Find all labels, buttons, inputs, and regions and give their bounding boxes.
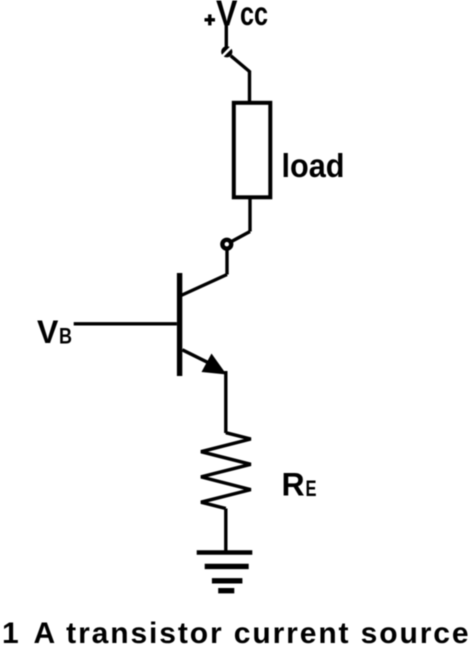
svg-text:load: load: [282, 147, 345, 184]
svg-text:1A transistor current source: 1A transistor current source: [2, 617, 470, 646]
svg-text:E: E: [306, 476, 317, 501]
svg-text:V: V: [37, 314, 59, 350]
svg-text:cc: cc: [240, 0, 268, 32]
svg-text:R: R: [282, 467, 305, 503]
svg-text:B: B: [59, 324, 72, 349]
